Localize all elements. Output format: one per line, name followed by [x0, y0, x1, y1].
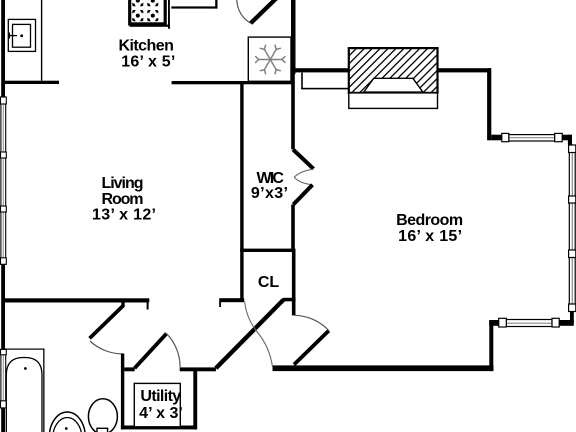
svg-text:Utility: Utility [140, 388, 181, 405]
svg-text:4’ x 3’: 4’ x 3’ [139, 405, 183, 422]
svg-text:Living: Living [102, 175, 144, 192]
svg-text:9’x3’: 9’x3’ [251, 185, 288, 202]
svg-text:CL: CL [258, 274, 280, 291]
svg-text:16’ x 15’: 16’ x 15’ [398, 228, 462, 245]
svg-text:Bedroom: Bedroom [396, 212, 463, 229]
svg-text:13’ x 12’: 13’ x 12’ [92, 206, 156, 223]
svg-text:Kitchen: Kitchen [118, 37, 174, 54]
svg-text:16’ x 5’: 16’ x 5’ [121, 54, 175, 71]
